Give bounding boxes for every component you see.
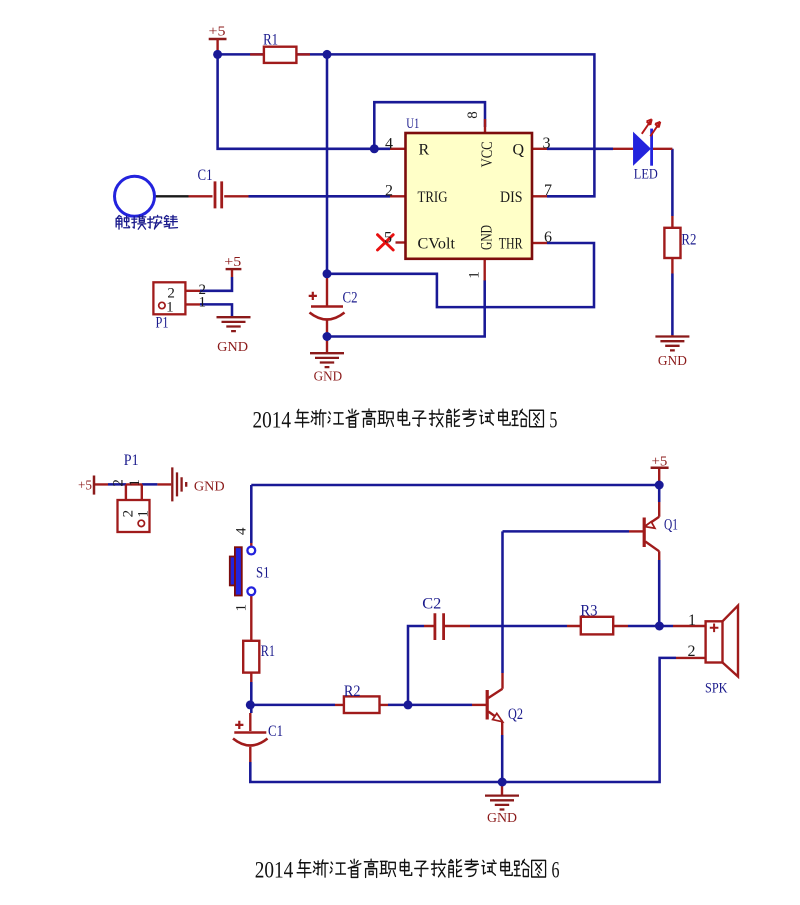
svg-text:+5: +5 [652, 455, 668, 470]
svg-text:GND: GND [487, 811, 517, 826]
svg-text:P1: P1 [124, 452, 139, 469]
svg-text:2: 2 [110, 479, 126, 487]
svg-text:U1: U1 [406, 116, 419, 132]
svg-text:GND: GND [658, 354, 687, 369]
svg-text:1: 1 [166, 299, 174, 315]
svg-text:1: 1 [127, 479, 143, 487]
svg-text:3: 3 [543, 135, 551, 152]
svg-text:C1: C1 [198, 167, 213, 184]
svg-text:THR: THR [499, 236, 523, 253]
svg-text:7: 7 [544, 182, 552, 199]
svg-text:GND: GND [314, 370, 343, 385]
svg-text:Q: Q [513, 142, 525, 159]
svg-text:C2: C2 [422, 596, 441, 613]
svg-text:C1: C1 [268, 723, 283, 740]
svg-text:VCC: VCC [479, 141, 496, 167]
svg-text:GND: GND [194, 479, 225, 494]
svg-text:S1: S1 [256, 565, 270, 582]
svg-text:R2: R2 [344, 683, 361, 700]
svg-text:1: 1 [199, 295, 207, 311]
svg-text:1: 1 [688, 612, 696, 629]
svg-text:GND: GND [217, 340, 248, 355]
svg-text:1: 1 [466, 271, 482, 279]
svg-text:5: 5 [549, 407, 557, 432]
svg-text:CVolt: CVolt [418, 236, 456, 253]
svg-text:4: 4 [234, 527, 250, 535]
svg-text:GND: GND [478, 225, 495, 250]
svg-text:8: 8 [465, 111, 481, 119]
svg-text:2: 2 [688, 643, 696, 660]
svg-text:C2: C2 [343, 289, 358, 306]
svg-text:TRIG: TRIG [418, 189, 448, 206]
svg-text:5: 5 [384, 229, 392, 246]
svg-text:R1: R1 [263, 31, 278, 48]
svg-text:2: 2 [385, 182, 393, 199]
svg-text:DIS: DIS [500, 189, 523, 206]
svg-text:+5: +5 [78, 479, 92, 494]
svg-text:Q2: Q2 [508, 706, 523, 723]
svg-text:6: 6 [551, 858, 559, 883]
svg-text:4: 4 [385, 136, 393, 153]
svg-text:R2: R2 [681, 232, 696, 249]
svg-text:2014: 2014 [253, 407, 292, 432]
svg-text:1: 1 [234, 604, 250, 612]
svg-text:R1: R1 [261, 643, 275, 660]
svg-text:+5: +5 [209, 25, 226, 40]
svg-text:LED: LED [634, 167, 658, 183]
svg-text:R3: R3 [580, 603, 597, 620]
svg-text:1: 1 [135, 510, 151, 518]
svg-text:2: 2 [121, 510, 137, 518]
svg-text:P1: P1 [156, 315, 169, 332]
svg-text:+5: +5 [224, 255, 241, 270]
svg-text:6: 6 [544, 229, 552, 246]
svg-text:2014: 2014 [255, 858, 294, 883]
svg-text:SPK: SPK [705, 681, 728, 697]
svg-text:R: R [419, 142, 430, 159]
svg-text:Q1: Q1 [664, 517, 678, 534]
